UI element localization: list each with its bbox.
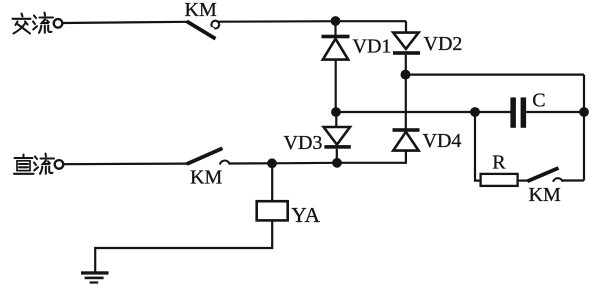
svg-text:VD4: VD4: [423, 130, 462, 152]
switch KM bottom contact hook: [220, 161, 230, 165]
wire VD2 top stub: [405, 21, 407, 33]
label 交流 (AC): [13, 13, 54, 34]
svg-text:KM: KM: [529, 184, 561, 206]
wire VD3 bottom stub: [336, 149, 338, 163]
wire node D to top right corner: [406, 73, 585, 75]
wire VD2 to node D: [405, 55, 407, 75]
wire node G down to coil YA: [271, 163, 273, 201]
wire right vertical: [583, 75, 585, 181]
svg-text:YA: YA: [291, 203, 320, 227]
wire VD3 top stub: [335, 112, 337, 127]
wire switch to right vertical: [562, 179, 584, 181]
wire capacitor right to node F: [526, 111, 584, 113]
node F junction dot: [579, 107, 589, 117]
switch KM bottom blade: [187, 148, 223, 164]
diode VD1: [322, 35, 350, 60]
node E junction dot: [470, 107, 480, 117]
diode VD2: [393, 33, 420, 55]
ground: [81, 271, 109, 283]
node B junction dot: [331, 107, 341, 117]
wire switch to node A: [219, 20, 337, 23]
switch KM top contact hook: [211, 21, 219, 31]
wire VD1 top stub: [334, 21, 336, 35]
diode VD4: [393, 128, 420, 150]
wire resistor to switch: [518, 180, 528, 182]
wire AC terminal to switch: [63, 22, 188, 23]
svg-text:R: R: [492, 151, 506, 173]
coil YA: [257, 201, 288, 220]
wire VD1 to node B: [335, 60, 337, 113]
wire node G to node C: [272, 162, 337, 165]
resistor R: [481, 174, 518, 186]
svg-text:C: C: [532, 89, 545, 111]
label 直流 (DC): [14, 154, 54, 174]
svg-text:KM: KM: [185, 0, 217, 21]
svg-text:VD3: VD3: [284, 132, 323, 154]
svg-text:VD2: VD2: [424, 33, 463, 55]
terminal DC: [55, 160, 64, 169]
wire VD4 bottom stub: [337, 151, 406, 163]
node A junction dot: [331, 16, 341, 26]
wire DC terminal to switch: [64, 163, 188, 166]
wire YA to ground run: [95, 220, 272, 271]
svg-text:KM: KM: [190, 167, 222, 189]
switch KM right blade: [527, 168, 558, 181]
switch KM right contact hook: [553, 178, 563, 182]
terminal AC: [54, 19, 63, 28]
capacitor C plates: [510, 97, 526, 127]
switch KM top blade: [187, 21, 216, 38]
wire middle bus node B to capacitor: [336, 111, 511, 113]
wire switch to node G: [229, 162, 272, 164]
node G junction dot: [267, 158, 277, 168]
node C junction dot: [332, 158, 342, 168]
wire node E down to resistor: [475, 112, 481, 181]
svg-text:VD1: VD1: [353, 35, 392, 57]
diode VD3: [324, 127, 351, 149]
wire node A to VD2 top: [336, 20, 407, 22]
node D junction dot: [401, 70, 411, 80]
wire node D down through bus to VD4: [405, 75, 407, 129]
